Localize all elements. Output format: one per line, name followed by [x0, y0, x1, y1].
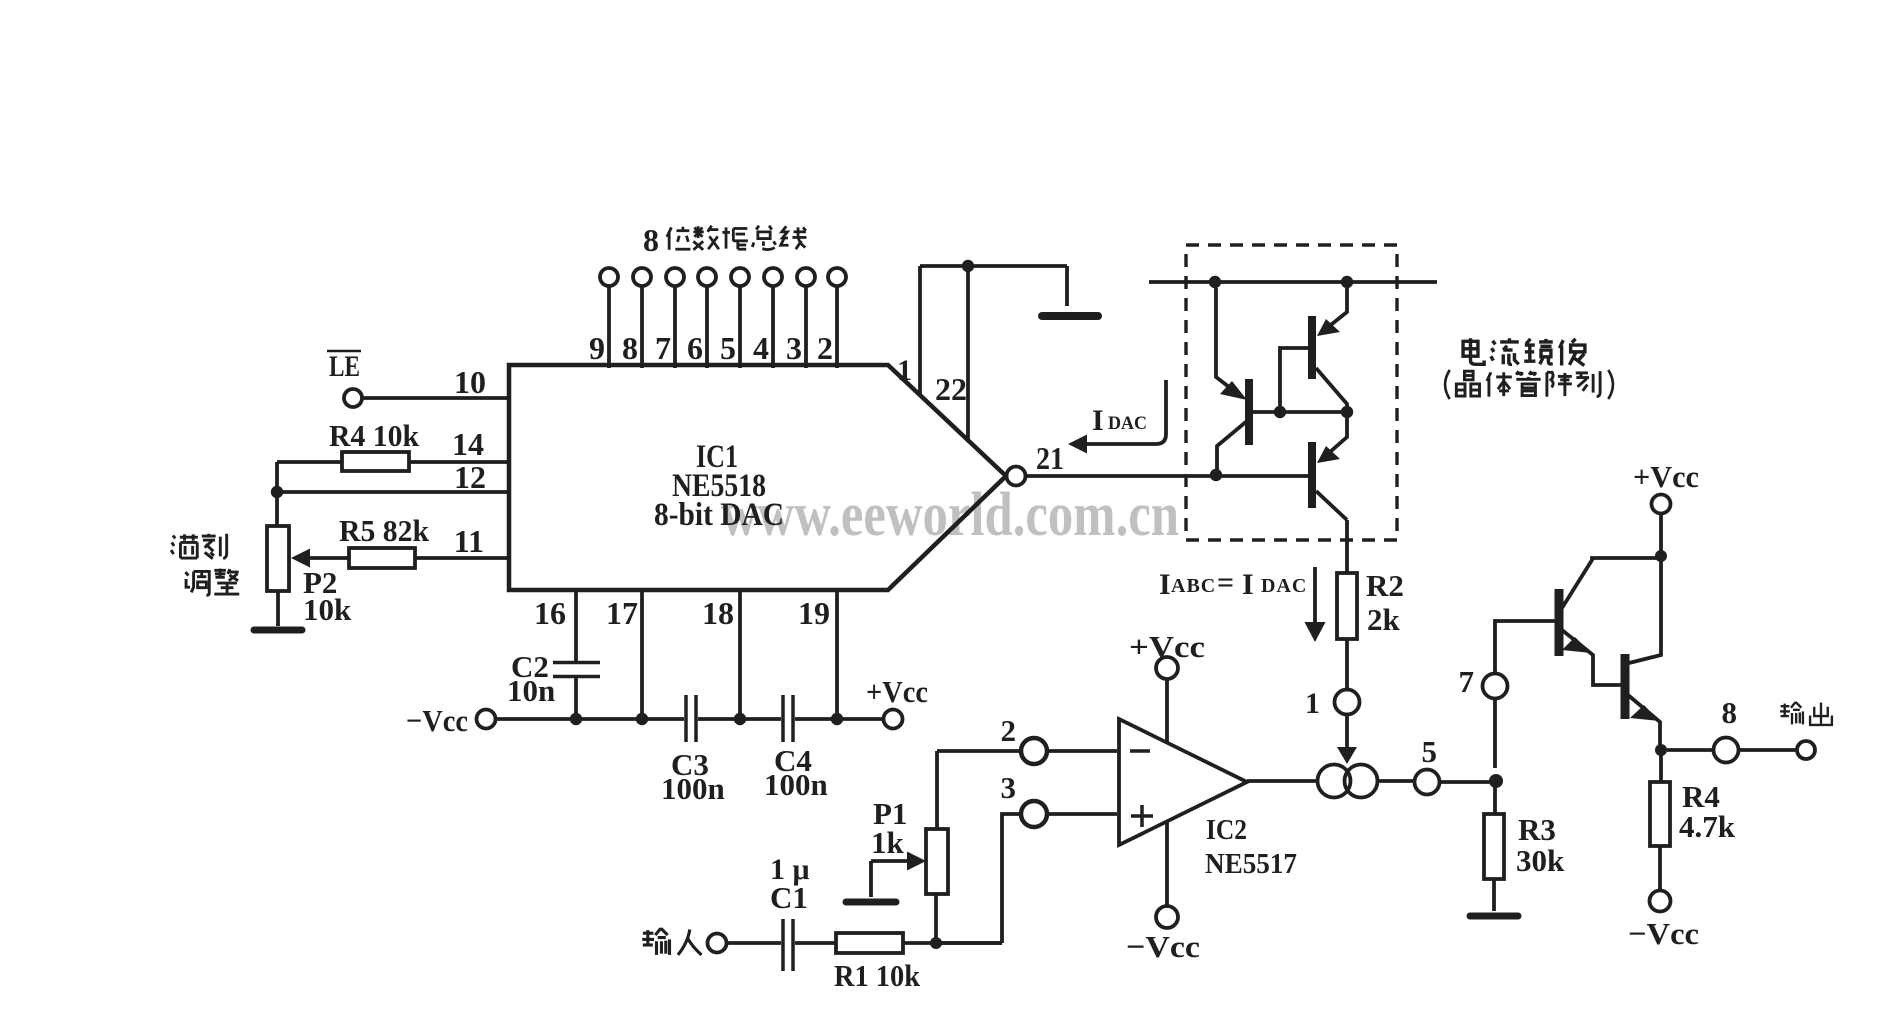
svg-text:16: 16	[534, 595, 566, 631]
svg-text:R2: R2	[1366, 568, 1404, 603]
svg-text:9: 9	[589, 330, 605, 366]
svg-text:21: 21	[1036, 440, 1064, 476]
svg-text:www.eeworld.com.cn: www.eeworld.com.cn	[721, 481, 1179, 549]
svg-text:10n: 10n	[507, 673, 555, 708]
svg-text:2k: 2k	[1367, 602, 1401, 637]
svg-text:NE5517: NE5517	[1205, 849, 1297, 880]
svg-text:−Vcc: −Vcc	[1126, 929, 1200, 964]
svg-text:+Vcc: +Vcc	[866, 674, 928, 709]
svg-text:7: 7	[1459, 664, 1475, 699]
svg-text:8: 8	[622, 330, 638, 366]
svg-text:30k: 30k	[1516, 843, 1565, 878]
svg-text:ABC: ABC	[1171, 575, 1216, 597]
svg-text:17: 17	[606, 595, 638, 631]
svg-text:=: =	[1217, 566, 1234, 599]
svg-text:DAC: DAC	[1261, 575, 1307, 597]
svg-text:R1 10k: R1 10k	[834, 958, 921, 993]
svg-text:8: 8	[643, 222, 659, 258]
svg-text:11: 11	[454, 523, 484, 559]
svg-text:R4 10k: R4 10k	[329, 418, 420, 453]
svg-text:14: 14	[452, 426, 484, 462]
svg-text:10: 10	[454, 364, 486, 400]
svg-text:3: 3	[1001, 770, 1017, 805]
svg-text:18: 18	[702, 595, 734, 631]
svg-text:2: 2	[1001, 713, 1017, 748]
svg-text:DAC: DAC	[1108, 413, 1147, 434]
svg-text:8-bit DAC: 8-bit DAC	[654, 497, 784, 533]
svg-text:7: 7	[655, 330, 671, 366]
svg-text:19: 19	[798, 595, 830, 631]
svg-text:−Vcc: −Vcc	[406, 703, 468, 738]
svg-text:5: 5	[1422, 734, 1438, 769]
svg-text:C1: C1	[770, 880, 808, 915]
svg-text:I: I	[1242, 568, 1254, 601]
svg-text:R5 82k: R5 82k	[339, 513, 430, 548]
svg-text:12: 12	[454, 459, 486, 495]
svg-text:I: I	[1159, 568, 1171, 601]
svg-text:I: I	[1092, 404, 1104, 437]
svg-text:8: 8	[1722, 695, 1738, 730]
svg-text:6: 6	[687, 330, 703, 366]
svg-text:22: 22	[935, 371, 967, 407]
svg-text:−Vcc: −Vcc	[1628, 916, 1699, 951]
svg-text:1: 1	[1305, 687, 1320, 720]
svg-text:2: 2	[817, 330, 833, 366]
svg-text:4.7k: 4.7k	[1679, 809, 1736, 844]
svg-text:IC2: IC2	[1206, 815, 1247, 846]
svg-text:+Vcc: +Vcc	[1633, 459, 1699, 494]
svg-text:LE: LE	[329, 350, 360, 383]
svg-text:4: 4	[753, 330, 769, 366]
svg-text:+Vcc: +Vcc	[1129, 629, 1205, 664]
svg-text:1: 1	[897, 354, 912, 387]
svg-text:3: 3	[786, 330, 802, 366]
svg-text:5: 5	[720, 330, 736, 366]
svg-text:10k: 10k	[303, 592, 352, 627]
svg-text:R3: R3	[1518, 812, 1556, 847]
svg-text:1k: 1k	[871, 825, 905, 860]
svg-text:100n: 100n	[764, 767, 828, 802]
svg-text:100n: 100n	[661, 771, 725, 806]
